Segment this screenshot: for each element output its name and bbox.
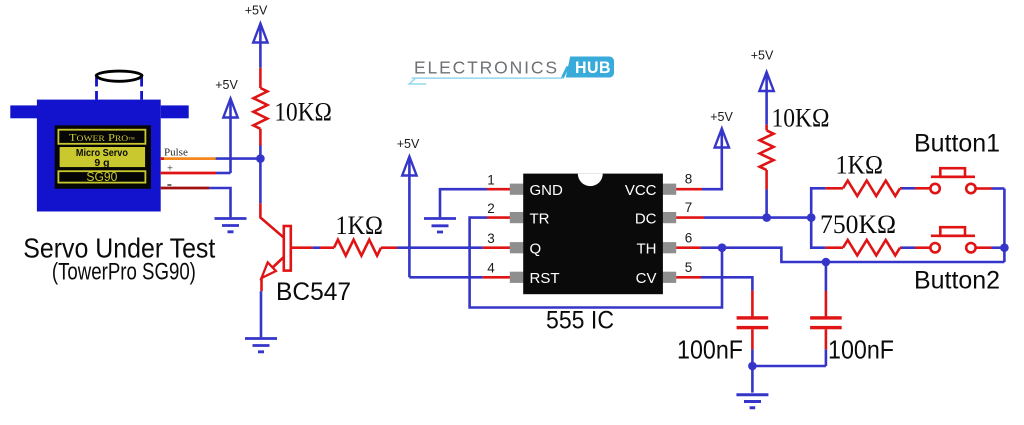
svg-text:1KΩ: 1KΩ [836,151,884,180]
svg-text:100nF: 100nF [828,335,894,365]
servo label row Tower Pro [58,130,145,144]
servo body [37,100,161,212]
svg-text:10KΩ: 10KΩ [274,98,332,127]
wire button2 to right bus [976,246,992,249]
svg-text:Button2: Button2 [914,267,1000,295]
wire 10K to node A [259,146,262,159]
wire pin5 CV red lead [676,276,701,279]
wire pin8 VCC red lead [676,188,702,191]
svg-text:+5V: +5V [215,78,238,92]
svg-text:3: 3 [487,231,495,246]
wire 1K right lead [381,246,397,249]
resistor R5 750KOhm (Button2) [843,240,900,255]
wire DC line to node B [704,216,811,219]
wire 10K right bottom lead [765,170,768,189]
wire pin6 TH red lead [676,246,700,249]
svg-text:1KΩ: 1KΩ [336,211,384,240]
wire VCC to +5V [702,148,722,190]
label - [167,184,171,186]
switch Button1 [930,168,975,193]
svg-text:7: 7 [685,200,693,215]
wire 10K bottom red lead [259,129,262,146]
svg-text:VCC: VCC [625,182,657,199]
wire servo plus (red) [161,172,216,175]
wire pin1 GND to ground [440,189,487,217]
wire caps bottom rail [752,365,826,368]
servo right mounting tab [161,105,189,118]
pin stub 3 [510,242,524,253]
wire 10K to DC node [765,189,768,217]
wire servo minus (dark red) [161,187,209,190]
switch Button2 [930,227,975,252]
node B (DC junction) [807,213,816,222]
svg-text:10KΩ: 10KΩ [772,104,830,133]
node (10K junction on DC) [762,213,771,222]
svg-text:HUB: HUB [575,58,611,77]
capacitor C1 bottom lead [751,329,754,349]
svg-text:RST: RST [530,270,560,287]
svg-text:ELECTRONICS: ELECTRONICS [414,57,559,77]
wire right bus [1003,189,1006,263]
svg-text:2: 2 [487,201,495,216]
wire TH to jog [701,248,1005,262]
power +5V (top left) [245,3,268,68]
svg-text:TH: TH [637,241,657,258]
power +5V (RST) [397,137,420,277]
wire node B down to 750K row [811,218,825,248]
resistor R1 10KOhm (pull-up, left) [253,88,267,129]
svg-text:DC: DC [635,210,657,227]
svg-text:6: 6 [685,231,693,246]
wire emitter to ground [260,291,263,337]
svg-text:1: 1 [487,173,495,188]
ground (emitter) [245,339,277,352]
pin stub 7 [663,212,677,223]
wire base blue segment [313,246,320,249]
node caps rail junction [748,362,757,371]
svg-text:+5V: +5V [245,3,268,17]
capacitor C2 100nF top lead [825,291,828,317]
servo shaft top [96,71,142,81]
svg-text:Pulse: Pulse [164,146,188,158]
wire +5V to pin4 RST [409,276,482,279]
wire emitter down (red) [260,278,263,291]
svg-text:4: 4 [487,261,495,276]
wire pin2 TR red lead [487,216,511,219]
capacitor C2 bottom lead [825,329,828,349]
node A (pulse junction) [256,154,265,163]
transistor Q1 BC547 collector lead [260,203,284,238]
logo Electronics Hub [409,57,614,85]
svg-text:TR: TR [530,210,550,227]
resistor R3 10KOhm (DC pull-up) [760,130,774,170]
wire button1 to right bus [976,187,992,190]
wire 1K right left lead [825,187,843,190]
wire servo pulse (orange) [164,157,216,160]
servo shaft sides [97,77,142,100]
wire 1K to pin3 Q [397,246,483,249]
svg-text:9 g: 9 g [94,157,109,169]
svg-text:+5V: +5V [751,48,774,62]
power +5V (servo) [215,78,238,173]
wire cap2 top lead [825,262,828,291]
capacitor C1 100nF top lead [751,291,754,317]
svg-text:BC547: BC547 [276,278,351,306]
svg-text:750KΩ: 750KΩ [820,210,896,239]
wire pin3 Q red lead [483,246,511,249]
wire plus to +5V stem [216,172,231,175]
wire 750K left lead [825,246,843,249]
servo motor M1 (TowerPro SG90) [10,71,188,211]
pin stub 1 [510,184,524,195]
ground (pin1) [424,219,456,233]
wire 750K to button2 [900,246,902,249]
transistor Q1 BC547 base bar [284,226,291,271]
svg-text:Q: Q [530,241,542,258]
svg-text:(TowerPro SG90): (TowerPro SG90) [52,259,196,286]
svg-text:+5V: +5V [710,110,733,124]
resistor R2 1KOhm (base) [334,240,381,256]
ground (caps) [736,395,768,408]
pin stub 5 [663,272,677,283]
wire node A down to collector [259,159,262,204]
wire pin7 DC red lead [676,216,704,219]
svg-text:Button1: Button1 [914,130,1000,158]
pin stub 2 [510,212,524,223]
svg-text:5: 5 [685,260,693,275]
servo label panel [55,125,151,189]
transistor Q1 emitter lead [262,257,284,278]
pin stub 8 [663,184,677,195]
node cap2 junction [822,258,831,267]
svg-text:8: 8 [685,172,693,187]
power +5V (right 10K) [751,48,774,124]
wire rail to ground [751,366,754,393]
wire CV to cap1 [701,277,752,290]
wire minus to ground [209,188,231,217]
wire base red lead [291,246,313,249]
wire pin1 GND red lead [487,188,511,191]
pin stub 4 [510,272,524,283]
svg-text:555 IC: 555 IC [546,307,614,335]
ground (servo minus) [215,219,247,232]
transistor Q1 emitter arrow [262,262,276,278]
node TH junction [718,243,727,252]
svg-text:+5V: +5V [397,137,420,151]
capacitor C2 100nF plates [810,316,842,319]
wire +5V to 10K top (red lead) [259,68,262,88]
svg-text:TOWER PRO™: TOWER PRO™ [69,132,135,144]
svg-text:100nF: 100nF [677,335,743,365]
servo label row SG90 [58,171,145,182]
node button2 bus junction [1000,243,1009,252]
svg-text:CV: CV [636,270,657,287]
svg-text:GND: GND [530,182,564,199]
wire pulse to node A [216,157,261,160]
wire 1K to button1 [900,187,902,190]
wire pin4 RST red lead [483,276,511,279]
wire pin2 TR down and along bottom to TH riser [470,218,722,308]
servo label row Micro Servo 9 g [59,147,146,168]
op IC U1 555 timer [487,172,692,295]
wire servo pulse red nub [161,157,164,160]
power +5V (VCC) [710,110,733,148]
capacitor C1 100nF plates [737,316,769,319]
wire node B up to 1K row [811,188,825,217]
pin stub 6 [663,242,677,253]
servo left mounting tab [10,105,37,118]
wire 1K left lead [320,246,334,249]
IC notch [578,174,603,187]
svg-text:SG90: SG90 [86,170,117,184]
resistor R4 1KOhm (Button1) [843,181,900,196]
wire +5V to 10K right top lead [765,125,768,131]
IC body [523,174,663,295]
